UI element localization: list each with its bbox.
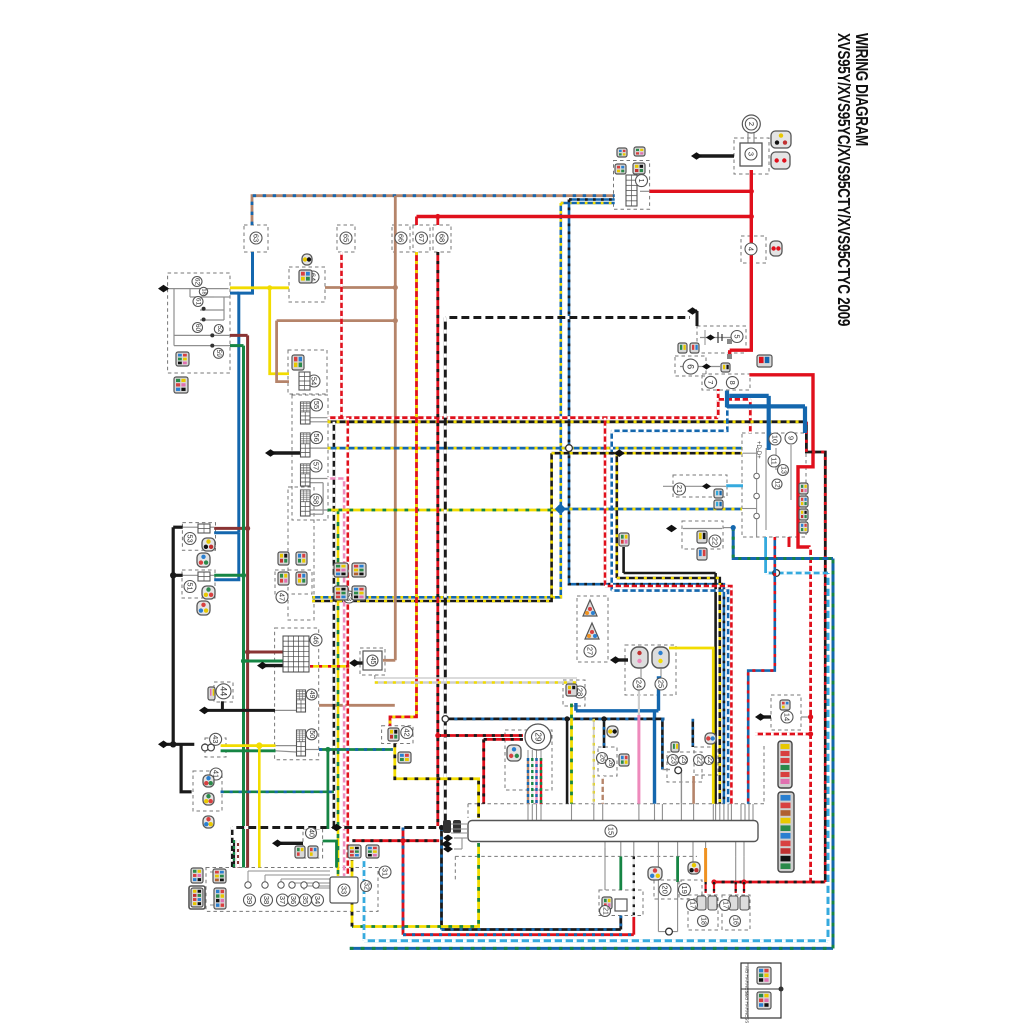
svg-text:20: 20 xyxy=(661,885,670,893)
component 63 xyxy=(250,232,262,244)
icon in box 1 left xyxy=(615,164,626,174)
wire red/blue vertical 403 xyxy=(402,828,405,935)
wire black/white vertical 334 xyxy=(333,422,336,827)
svg-text:26: 26 xyxy=(599,754,606,762)
svg-text:15: 15 xyxy=(607,827,616,835)
icon below 42 traffic xyxy=(398,752,411,763)
icon above 23 xyxy=(705,733,716,744)
svg-text:23: 23 xyxy=(680,757,686,764)
svg-text:24: 24 xyxy=(635,680,644,688)
wire cap line comp 5 xyxy=(700,337,733,339)
wire black/white drop to 31 xyxy=(231,827,234,868)
relay 37 xyxy=(278,882,284,888)
svg-text:51: 51 xyxy=(186,582,195,590)
wire red/white ladder 586 xyxy=(605,586,731,804)
icon far right of 6 xyxy=(757,355,772,367)
wire red bus 216 xyxy=(417,215,752,218)
svg-text:17: 17 xyxy=(722,901,729,909)
icon 28 xyxy=(566,684,577,696)
wire gray 57 to 58 xyxy=(310,482,323,484)
box component 6 xyxy=(675,356,706,376)
svg-text:19: 19 xyxy=(680,885,689,893)
wire brown/blue top bus xyxy=(252,196,615,225)
svg-text:9: 9 xyxy=(787,436,796,440)
wire red stub meter bottom xyxy=(788,537,791,547)
component 26 xyxy=(597,753,608,764)
icon meter column xyxy=(799,522,808,533)
box component 65 xyxy=(337,225,355,252)
icon cluster 47 a xyxy=(334,586,348,600)
wire cyan stub 21 xyxy=(726,484,743,487)
box component 44 xyxy=(214,682,233,702)
wire green vertical to 40 xyxy=(326,750,329,830)
svg-text:59: 59 xyxy=(215,350,222,358)
box component 51-52 xyxy=(182,570,215,598)
connector column box 55-58 xyxy=(292,395,328,520)
legend icon top xyxy=(757,967,771,984)
component 25 oval xyxy=(652,647,669,668)
wire blue/white vertical 611 xyxy=(610,431,613,591)
component 53 label mid xyxy=(343,591,355,603)
wire black left spine xyxy=(172,527,175,744)
box component 16-17 xyxy=(722,895,750,930)
icon above 14 xyxy=(780,700,790,710)
svg-text:6: 6 xyxy=(686,364,696,369)
box component 29 xyxy=(505,730,552,790)
wire green 43 to 50 xyxy=(221,749,276,752)
wire green/blue 50 to 42 xyxy=(319,748,393,751)
wire sky from meter xyxy=(764,537,767,573)
icon 44 xyxy=(208,687,215,700)
main connector bar 15 xyxy=(468,821,758,842)
component 41 xyxy=(210,768,222,780)
component 52 xyxy=(214,325,223,334)
component 18 xyxy=(698,916,709,927)
handlebar switch box 59-62 xyxy=(168,273,230,373)
wire red jog xyxy=(730,341,752,350)
box component 45a xyxy=(360,648,385,675)
svg-text:61: 61 xyxy=(195,298,202,306)
wire red branch 399 xyxy=(716,398,750,401)
svg-text:49: 49 xyxy=(308,691,315,699)
icon left of 31 a xyxy=(191,868,203,883)
ground arrow top right xyxy=(694,154,734,157)
box component 27 xyxy=(577,596,608,662)
wire white pair top xyxy=(375,677,577,679)
svg-text:33: 33 xyxy=(340,886,349,894)
ground arrow 46 xyxy=(260,664,283,667)
svg-text:21: 21 xyxy=(602,907,609,915)
svg-text:29: 29 xyxy=(534,733,543,742)
wire junction at ring xyxy=(658,931,677,933)
svg-text:57: 57 xyxy=(312,462,321,470)
svg-text:46: 46 xyxy=(312,636,321,644)
svg-text:52: 52 xyxy=(216,326,222,333)
icon left of 31 d xyxy=(214,888,226,909)
icon cluster 47 c xyxy=(334,563,348,577)
component 24 oval xyxy=(631,647,648,668)
legend icon bottom xyxy=(757,992,771,1009)
svg-text:14: 14 xyxy=(783,713,792,721)
ignition coil unit box 3 xyxy=(734,138,769,174)
wire blue thick 406 xyxy=(727,404,805,408)
wire black/blue vertical 662 xyxy=(661,719,664,770)
icon 29 xyxy=(507,745,521,761)
comb 57 xyxy=(301,464,311,486)
wire drop to rear connector xyxy=(735,882,737,893)
icon 22 b xyxy=(697,548,707,560)
box component 14 xyxy=(771,695,801,730)
ground arrow 45a xyxy=(352,661,363,664)
svg-text:43: 43 xyxy=(211,735,220,743)
wire maroon to 53 xyxy=(214,527,247,530)
wire yellow bus bottom xyxy=(352,843,479,927)
wire green drop 677 xyxy=(676,856,679,882)
icon cluster 47 d xyxy=(352,563,366,577)
component 32 xyxy=(361,881,372,892)
wire blue spine left xyxy=(239,252,253,533)
wire red/white right vertical xyxy=(809,547,812,882)
svg-text:22: 22 xyxy=(711,537,720,545)
icon above 23 xyxy=(671,742,679,752)
component 47 xyxy=(276,591,288,603)
meter internal wires xyxy=(743,452,757,454)
icon 40 a xyxy=(295,846,305,858)
icon 41 a xyxy=(203,775,214,787)
component 22 circle xyxy=(709,535,721,547)
wire 14 to red xyxy=(801,716,811,718)
wire black/yellow vertical 616 xyxy=(615,453,618,578)
icon meter column xyxy=(799,483,808,494)
svg-text:63: 63 xyxy=(252,234,261,242)
wire green to 51 xyxy=(214,574,243,577)
svg-text:60: 60 xyxy=(194,324,201,332)
wire yellow drop to 31 xyxy=(258,746,261,868)
svg-text:67: 67 xyxy=(417,234,426,242)
wires below bar 15 xyxy=(604,842,606,857)
comb 56 xyxy=(301,433,311,457)
icon 22 a xyxy=(697,531,707,543)
wire yellow/red fuse to 45a xyxy=(310,665,350,668)
wire blue to 51 xyxy=(214,533,239,580)
svg-text:32: 32 xyxy=(363,882,370,890)
wire brown 64 branch xyxy=(325,286,395,289)
svg-text:11: 11 xyxy=(770,457,779,465)
wire red ignition vertical xyxy=(750,170,753,341)
svg-text:31: 31 xyxy=(381,868,390,876)
component 59 xyxy=(214,348,224,358)
wire striped 29 drop xyxy=(535,758,537,804)
svg-text:68: 68 xyxy=(438,234,447,242)
icon 5 a xyxy=(678,343,687,353)
svg-text:53: 53 xyxy=(186,534,195,542)
wire black 44 row xyxy=(203,709,275,712)
wire switch 22 xyxy=(683,528,722,530)
wire black/blue drop to 26 xyxy=(603,719,606,748)
wire brown branch 320 xyxy=(277,319,396,322)
ground arrow 44 xyxy=(199,707,210,715)
wire sky stub left xyxy=(363,858,366,941)
wire red/yellow vertical 416 xyxy=(390,252,417,726)
icon in box 1 right xyxy=(633,163,645,174)
icon 54 upper xyxy=(292,355,304,370)
wire yellow ladder to coil xyxy=(669,648,713,804)
icon above 20 xyxy=(648,867,662,880)
rectifier box 21b xyxy=(599,890,643,916)
gray internal wires xyxy=(747,131,749,143)
wire black bus 827 xyxy=(232,826,446,829)
svg-text:66: 66 xyxy=(397,234,406,242)
wire black vertical 567 xyxy=(566,719,569,804)
icon 5 b xyxy=(690,343,699,353)
icon left of 31 b xyxy=(213,869,226,883)
wire red/white vertical 605 xyxy=(604,418,607,586)
relay 39 xyxy=(245,882,251,888)
wire yellow/green bus 510 xyxy=(328,509,561,512)
ground arrow 62 cluster xyxy=(161,287,168,290)
box component 64 xyxy=(289,267,325,302)
wire brown stub to 45a xyxy=(383,659,395,662)
svg-text:+D-D+: +D-D+ xyxy=(755,441,761,459)
svg-text:SUB HARNESS: SUB HARNESS xyxy=(745,991,750,1023)
svg-text:18: 18 xyxy=(201,288,207,294)
wire red/black to 29 upper xyxy=(438,734,523,737)
svg-text:65: 65 xyxy=(342,234,351,242)
svg-text:7: 7 xyxy=(706,380,715,384)
plug icons left of bar 15 xyxy=(443,820,451,833)
component 17 left xyxy=(687,900,698,911)
wire black ground bus left xyxy=(161,743,194,746)
wire orange drop xyxy=(704,848,707,882)
component 53 xyxy=(184,533,196,545)
wire red/blue bus 934 xyxy=(403,933,634,936)
component 51 xyxy=(184,581,196,593)
component 61 xyxy=(193,297,203,307)
wire red/black bus 882 xyxy=(713,881,826,884)
wire black ladder 573 xyxy=(624,572,716,575)
icon 47 top a xyxy=(278,552,289,565)
ground arrow 14 xyxy=(758,715,771,718)
box component 67 xyxy=(413,225,430,252)
icon left of 31 c framed xyxy=(189,886,205,909)
wire black/blue vertical 441 xyxy=(440,828,443,930)
svg-text:38: 38 xyxy=(262,896,271,904)
svg-text:25: 25 xyxy=(657,680,666,688)
svg-text:2: 2 xyxy=(747,122,756,126)
box component 26 xyxy=(598,747,617,776)
wire maroon spine xyxy=(246,335,249,867)
svg-text:54: 54 xyxy=(310,377,319,385)
wire blue thick vertical 727 xyxy=(725,391,729,408)
icon component 64 xyxy=(299,270,312,283)
component 12 xyxy=(772,479,782,489)
wire yellow/green vertical 571 xyxy=(570,704,573,804)
rectifier block in 21b xyxy=(615,899,627,911)
tall connector strip upper xyxy=(778,741,792,788)
gray wires into bar left xyxy=(454,837,468,839)
harness dashed outline above main connector bar xyxy=(468,803,764,805)
wire white/yellow to 28 xyxy=(375,681,577,683)
svg-text:40: 40 xyxy=(308,829,315,837)
wire red stub 68 xyxy=(436,217,439,226)
connector column outline 47 xyxy=(288,487,314,620)
relay box 31 internal wires xyxy=(248,870,330,872)
icon 47 in b xyxy=(296,572,307,585)
ground arrow 438 xyxy=(441,840,452,848)
component 19 xyxy=(679,884,691,896)
wire comp 6 xyxy=(680,366,720,368)
component 28 xyxy=(574,686,586,698)
icon 40 b xyxy=(308,846,318,858)
svg-text:35: 35 xyxy=(301,896,310,904)
wire sky blue horizontal 573 xyxy=(766,572,828,575)
wire black/blue drop to 22 cluster xyxy=(691,719,694,747)
component 2 ignition circle xyxy=(742,115,760,133)
wire pink vertical xyxy=(637,715,640,804)
component 67 xyxy=(416,232,428,244)
ground arrow 453 bus xyxy=(614,449,625,457)
tall connector strip lower xyxy=(778,792,794,872)
svg-text:23: 23 xyxy=(670,756,677,764)
wire black/blue bus 718 xyxy=(445,718,664,721)
svg-text:8: 8 xyxy=(728,381,737,385)
svg-text:4: 4 xyxy=(747,247,756,251)
wire blue/green from switch 22 xyxy=(733,528,833,559)
wire brown low branch xyxy=(319,704,395,707)
svg-text:45: 45 xyxy=(369,657,376,665)
icon meter column xyxy=(799,496,808,507)
wire green from 62 xyxy=(230,344,244,347)
wire blue/yellow bus 509 right xyxy=(560,508,742,511)
box component 4 xyxy=(741,236,766,263)
comb 58 xyxy=(301,490,311,516)
wire black from plug icons xyxy=(622,547,625,573)
component 29 xyxy=(525,724,551,750)
fuse block column outline 46 49 50 xyxy=(275,628,319,760)
svg-text:39: 39 xyxy=(245,896,254,904)
svg-text:58: 58 xyxy=(312,496,321,504)
relay box 33 xyxy=(330,877,358,903)
wire gray 55 to red bus xyxy=(310,417,328,419)
icon 47 top b xyxy=(296,552,307,565)
rear turn signal connector pair xyxy=(729,896,738,910)
comb 54 xyxy=(299,372,310,390)
icon 21b xyxy=(602,897,612,909)
icon below 53 xyxy=(197,553,210,567)
component 62 xyxy=(192,277,202,287)
wire drop to rear connector xyxy=(743,882,745,893)
box component 28 xyxy=(563,680,585,706)
wire switch 21 xyxy=(663,485,726,487)
wire black to 41 xyxy=(181,744,192,792)
icon right of 6 xyxy=(721,363,730,372)
fuse block 46 xyxy=(283,636,309,672)
icon above 64 xyxy=(302,254,312,265)
box component 47 xyxy=(275,570,312,594)
box components 7 8 xyxy=(702,374,750,390)
wire switch 62 row xyxy=(168,288,229,290)
wire black/red right edge vertical xyxy=(806,422,825,882)
component 16 xyxy=(730,916,741,927)
svg-text:13: 13 xyxy=(780,466,787,474)
relay 35 xyxy=(301,882,307,888)
svg-text:18: 18 xyxy=(700,917,707,925)
wire blue thick vertical 768 xyxy=(767,396,771,450)
wire drop to rear connector xyxy=(704,882,706,893)
wire red/white from 65 xyxy=(340,252,343,418)
wire white/yellow vertical 593 xyxy=(593,719,595,804)
svg-text:5: 5 xyxy=(733,334,742,338)
component 44 xyxy=(216,684,231,699)
icon in 62 box xyxy=(176,352,189,366)
component 20 xyxy=(659,884,671,896)
wire red/white 734 xyxy=(755,733,811,736)
relay box outline 31 xyxy=(206,868,378,912)
box component 17-18 xyxy=(688,895,718,930)
svg-text:50: 50 xyxy=(308,730,315,738)
box 19 xyxy=(681,880,702,899)
icon 41 b xyxy=(203,793,214,805)
wire blue/yellow comb feed xyxy=(561,202,615,205)
wire blue stub up xyxy=(574,703,577,711)
svg-text:47: 47 xyxy=(278,593,287,601)
comb 55 xyxy=(301,402,311,424)
wire brown to 54 xyxy=(277,321,289,382)
wire red stub 67 xyxy=(415,217,418,226)
component 11 xyxy=(768,455,780,467)
wire green drop 620 xyxy=(619,856,622,890)
component 17 right xyxy=(720,900,731,911)
component 14 xyxy=(781,711,793,723)
ground arrow 43 row xyxy=(158,741,169,749)
svg-text:62: 62 xyxy=(194,278,201,286)
wire red battery path right xyxy=(749,375,813,547)
component 21b circle xyxy=(600,906,611,917)
component 21 circle xyxy=(674,483,686,495)
wire black/yellow 453 to meter xyxy=(552,452,742,455)
wire pink/white vertical xyxy=(343,479,346,877)
svg-text:21: 21 xyxy=(675,485,684,493)
box components 23 cluster xyxy=(667,752,702,782)
svg-text:27: 27 xyxy=(586,647,595,655)
component 42 xyxy=(401,727,413,739)
wire red vertical to 7-8 xyxy=(717,389,720,418)
wire white/black drop 633 xyxy=(633,856,635,917)
icon below 62 box xyxy=(174,377,188,393)
svg-text:55: 55 xyxy=(312,401,321,409)
icon above 19 xyxy=(688,862,700,874)
component 6 xyxy=(683,359,698,374)
wire blue thick vertical 805 xyxy=(803,406,807,433)
box component 40 xyxy=(303,829,323,858)
wire striped 29 drop xyxy=(540,758,542,804)
component 8 xyxy=(726,377,738,389)
wire red fuse to coil 3 xyxy=(650,190,752,193)
component 64 xyxy=(307,271,319,283)
svg-text:26: 26 xyxy=(607,760,613,767)
icon plug pair 623 xyxy=(619,533,629,546)
box component 41 xyxy=(193,771,222,811)
component 66 xyxy=(395,232,407,244)
comb 49 xyxy=(297,690,306,712)
wire blue/white ladder 590 xyxy=(612,591,728,804)
wire blue horizontal 710 xyxy=(576,709,659,712)
wire red/white bus 417 xyxy=(328,416,719,419)
wire yellow/black from 42 xyxy=(395,744,479,819)
svg-text:42: 42 xyxy=(402,728,411,736)
component 7 xyxy=(705,376,717,388)
comb 50 xyxy=(297,730,306,756)
